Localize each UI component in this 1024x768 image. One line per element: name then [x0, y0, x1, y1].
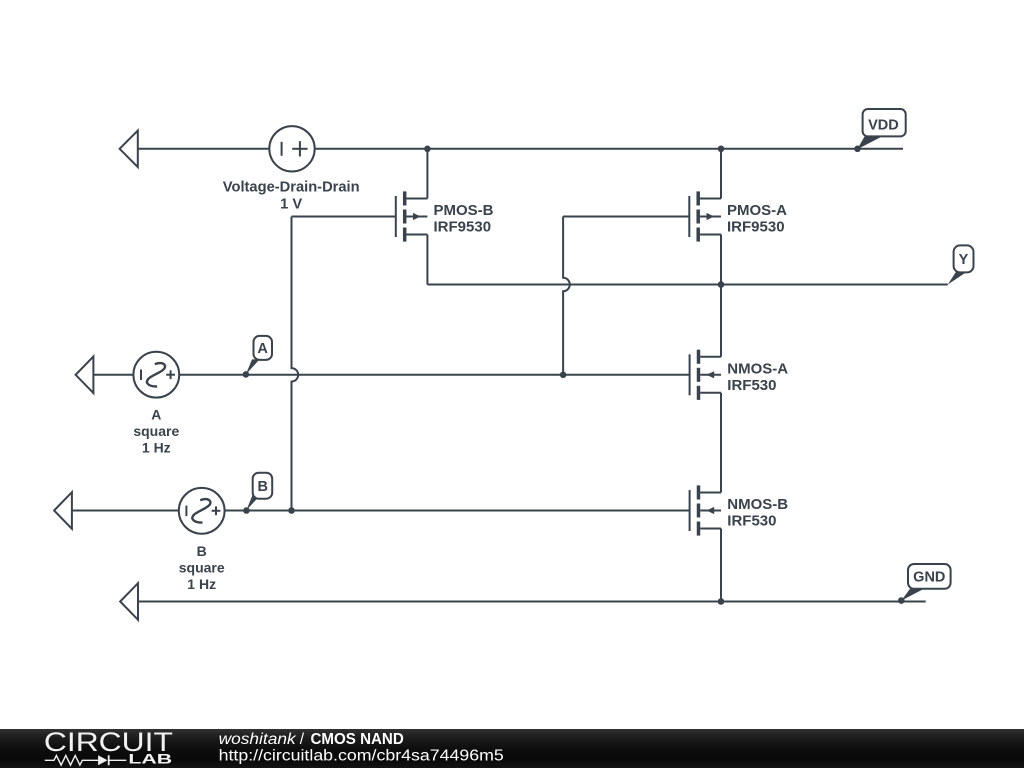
svg-text:NMOS-A: NMOS-A — [727, 361, 788, 378]
junction dot net B T — [288, 507, 295, 514]
wire net A vertical with hop over net Y — [563, 217, 570, 375]
wire input B left — [72, 510, 179, 512]
junction dot top rail / PMOS-A drain — [718, 146, 725, 153]
wire net B vertical with hop over net A — [292, 217, 299, 511]
svg-text:B: B — [197, 543, 207, 559]
svg-text:CMOS NAND: CMOS NAND — [311, 731, 404, 748]
svg-text:http://circuitlab.com/cbr4sa74: http://circuitlab.com/cbr4sa74496m5 — [219, 748, 504, 765]
label NMOS-A name — [727, 361, 788, 378]
svg-text:NMOS-B: NMOS-B — [727, 496, 788, 513]
svg-text:square: square — [133, 423, 179, 439]
label flag GND text — [913, 570, 945, 586]
wire PMOS-A source down to NMOS-A drain — [720, 235, 722, 357]
flag GND — [901, 564, 950, 601]
wire PMOS-B gate horizontal — [292, 216, 396, 218]
footer url — [219, 748, 504, 765]
junction dot net Y / NMOS-A drain — [718, 281, 725, 288]
footer circuit title — [311, 731, 404, 748]
wire input A left — [93, 374, 133, 376]
wire PMOS-A drain vertical — [720, 149, 722, 199]
label flag B text — [258, 479, 268, 495]
junction dot GND flag — [898, 597, 905, 604]
wire NMOS-B source down to GND rail — [720, 529, 722, 602]
wire VDD rail left — [138, 148, 269, 150]
svg-text:/: / — [300, 731, 305, 748]
label V1 name — [223, 179, 360, 195]
junction dot top rail / PMOS-B drain — [424, 146, 431, 153]
svg-text:Voltage-Drain-Drain: Voltage-Drain-Drain — [223, 179, 360, 195]
label flag Y text — [959, 252, 969, 268]
voltage source VB circle — [179, 488, 225, 534]
svg-text:IRF9530: IRF9530 — [727, 219, 785, 236]
wire VDD rail right — [315, 148, 903, 150]
transistor PMOS-B — [396, 191, 428, 241]
junction dot net A T — [560, 372, 567, 379]
svg-text:A: A — [257, 341, 268, 357]
label VA freq — [142, 440, 171, 456]
junction dot flag A on net A — [243, 371, 250, 378]
logo resistor zigzag — [45, 756, 98, 766]
flag node B — [246, 473, 272, 511]
label VB type — [179, 559, 225, 575]
label VA name — [151, 407, 161, 423]
svg-text:IRF9530: IRF9530 — [434, 219, 492, 236]
label flag VDD text — [868, 117, 899, 133]
flag Y — [948, 245, 974, 284]
voltage source VA circle — [133, 352, 179, 398]
logo LAB word — [128, 751, 172, 766]
transistor NMOS-B — [690, 485, 721, 535]
junction dot flag B on net B — [243, 507, 250, 514]
svg-text:B: B — [258, 479, 268, 495]
wire PMOS-B source vertical — [426, 235, 428, 285]
wire NMOS-A source down to NMOS-B drain — [720, 393, 722, 493]
junction dot VDD flag — [854, 146, 861, 153]
transistor NMOS-A — [690, 350, 721, 400]
flag node A — [246, 336, 272, 375]
footer author name — [219, 731, 297, 748]
svg-text:Y: Y — [959, 252, 969, 268]
svg-text:1 Hz: 1 Hz — [187, 576, 216, 592]
svg-text:A: A — [151, 407, 161, 423]
label NMOS-B name — [727, 496, 788, 513]
svg-text:PMOS-A: PMOS-A — [727, 202, 787, 219]
logo CIRCUIT word — [44, 727, 173, 757]
wire GND rail — [138, 601, 926, 603]
svg-text:GND: GND — [913, 570, 945, 586]
label NMOS-A part — [727, 377, 776, 394]
svg-text:IRF530: IRF530 — [727, 377, 776, 394]
label PMOS-B name — [434, 202, 494, 219]
svg-text:woshitank: woshitank — [219, 731, 297, 748]
svg-text:VDD: VDD — [868, 117, 899, 133]
svg-text:PMOS-B: PMOS-B — [434, 202, 494, 219]
label VB freq — [187, 576, 216, 592]
label VB name — [197, 543, 207, 559]
terminal arrow input B — [54, 492, 72, 529]
label PMOS-B part — [434, 219, 492, 236]
wire net A horizontal — [179, 374, 690, 376]
wire net B horizontal — [225, 510, 690, 512]
wire output Y horizontal — [427, 284, 947, 286]
wire PMOS-A gate horizontal — [563, 216, 689, 218]
voltage source V1 circle — [269, 126, 314, 171]
wire PMOS-B drain vertical — [426, 149, 428, 199]
label V1 value — [280, 197, 302, 213]
logo diode — [98, 755, 126, 765]
svg-text:1 Hz: 1 Hz — [142, 440, 171, 456]
transistor PMOS-A — [689, 191, 721, 241]
terminal arrow GND rail — [120, 583, 138, 620]
label NMOS-B part — [727, 513, 776, 530]
terminal arrow VDD rail — [120, 131, 138, 168]
label PMOS-A name — [727, 202, 787, 219]
label PMOS-A part — [727, 219, 785, 236]
footer separator slash — [300, 731, 305, 748]
svg-text:1 V: 1 V — [280, 197, 302, 213]
flag VDD — [857, 109, 905, 149]
footer bar — [0, 729, 1024, 768]
svg-text:IRF530: IRF530 — [727, 513, 776, 530]
label flag A text — [257, 341, 268, 357]
svg-text:square: square — [179, 559, 225, 575]
terminal arrow input A — [76, 357, 94, 394]
label VA type — [133, 423, 179, 439]
junction dot GND rail / NMOS-B source — [718, 598, 725, 605]
svg-text:LAB: LAB — [128, 751, 172, 766]
